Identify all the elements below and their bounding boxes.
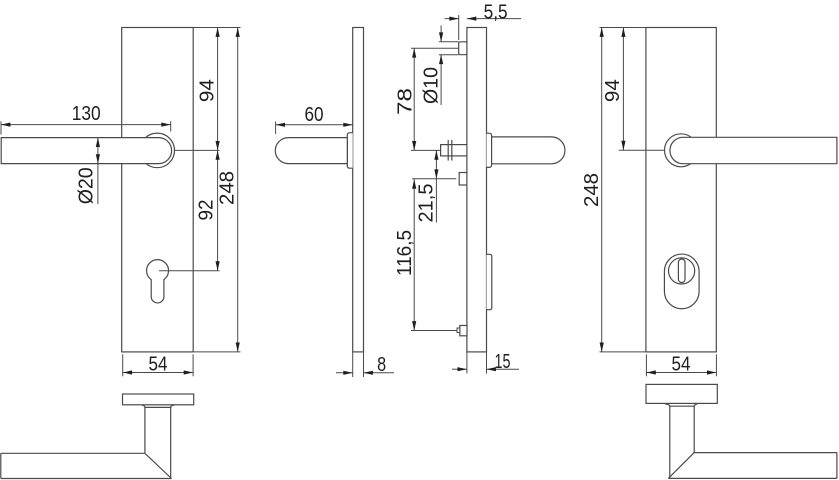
svg-text:Ø20: Ø20	[74, 167, 97, 204]
svg-text:15: 15	[495, 350, 511, 373]
svg-text:78: 78	[394, 88, 417, 115]
svg-text:130: 130	[72, 102, 101, 125]
svg-text:Ø10: Ø10	[419, 67, 442, 104]
svg-text:21,5: 21,5	[414, 184, 437, 223]
svg-text:94: 94	[601, 79, 624, 102]
svg-text:54: 54	[149, 352, 168, 375]
svg-text:116,5: 116,5	[393, 230, 416, 276]
svg-text:248: 248	[580, 173, 603, 207]
svg-text:248: 248	[215, 171, 238, 205]
svg-text:94: 94	[196, 79, 219, 102]
svg-text:54: 54	[672, 352, 691, 375]
svg-text:8: 8	[377, 353, 386, 376]
svg-text:5,5: 5,5	[484, 0, 508, 23]
svg-text:92: 92	[195, 200, 218, 221]
svg-text:60: 60	[305, 103, 324, 126]
